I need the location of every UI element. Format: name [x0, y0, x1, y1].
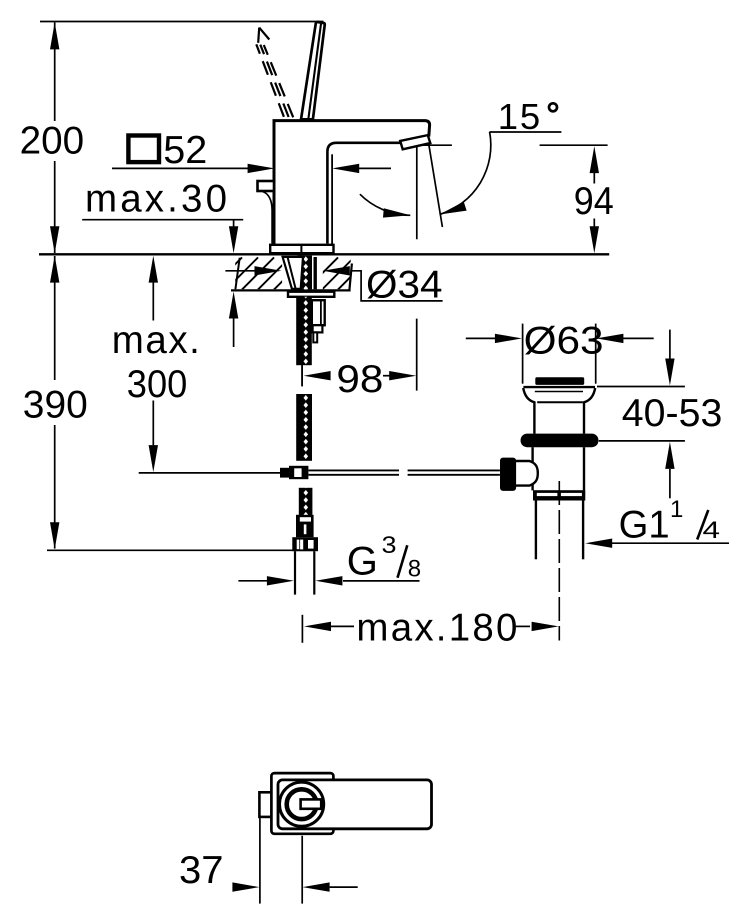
svg-text:max.30: max.30 — [85, 178, 227, 221]
svg-text:52: 52 — [163, 129, 207, 172]
svg-text:37: 37 — [179, 849, 224, 892]
svg-text:390: 390 — [23, 384, 88, 427]
svg-text:94: 94 — [574, 180, 614, 223]
svg-text:15: 15 — [498, 96, 541, 137]
svg-text:40-53: 40-53 — [622, 392, 723, 435]
svg-text:Ø34: Ø34 — [366, 263, 443, 306]
svg-text:8: 8 — [408, 555, 421, 582]
svg-text:300: 300 — [127, 363, 188, 406]
svg-text:max.: max. — [112, 319, 200, 362]
svg-text:G1: G1 — [619, 504, 670, 547]
svg-text:1: 1 — [670, 496, 683, 523]
svg-text:max.180: max.180 — [356, 607, 517, 650]
svg-text:3: 3 — [382, 532, 397, 559]
svg-text:200: 200 — [20, 120, 85, 163]
svg-text:98: 98 — [336, 358, 383, 401]
svg-text:Ø63: Ø63 — [524, 319, 604, 362]
svg-text:G: G — [347, 539, 378, 583]
